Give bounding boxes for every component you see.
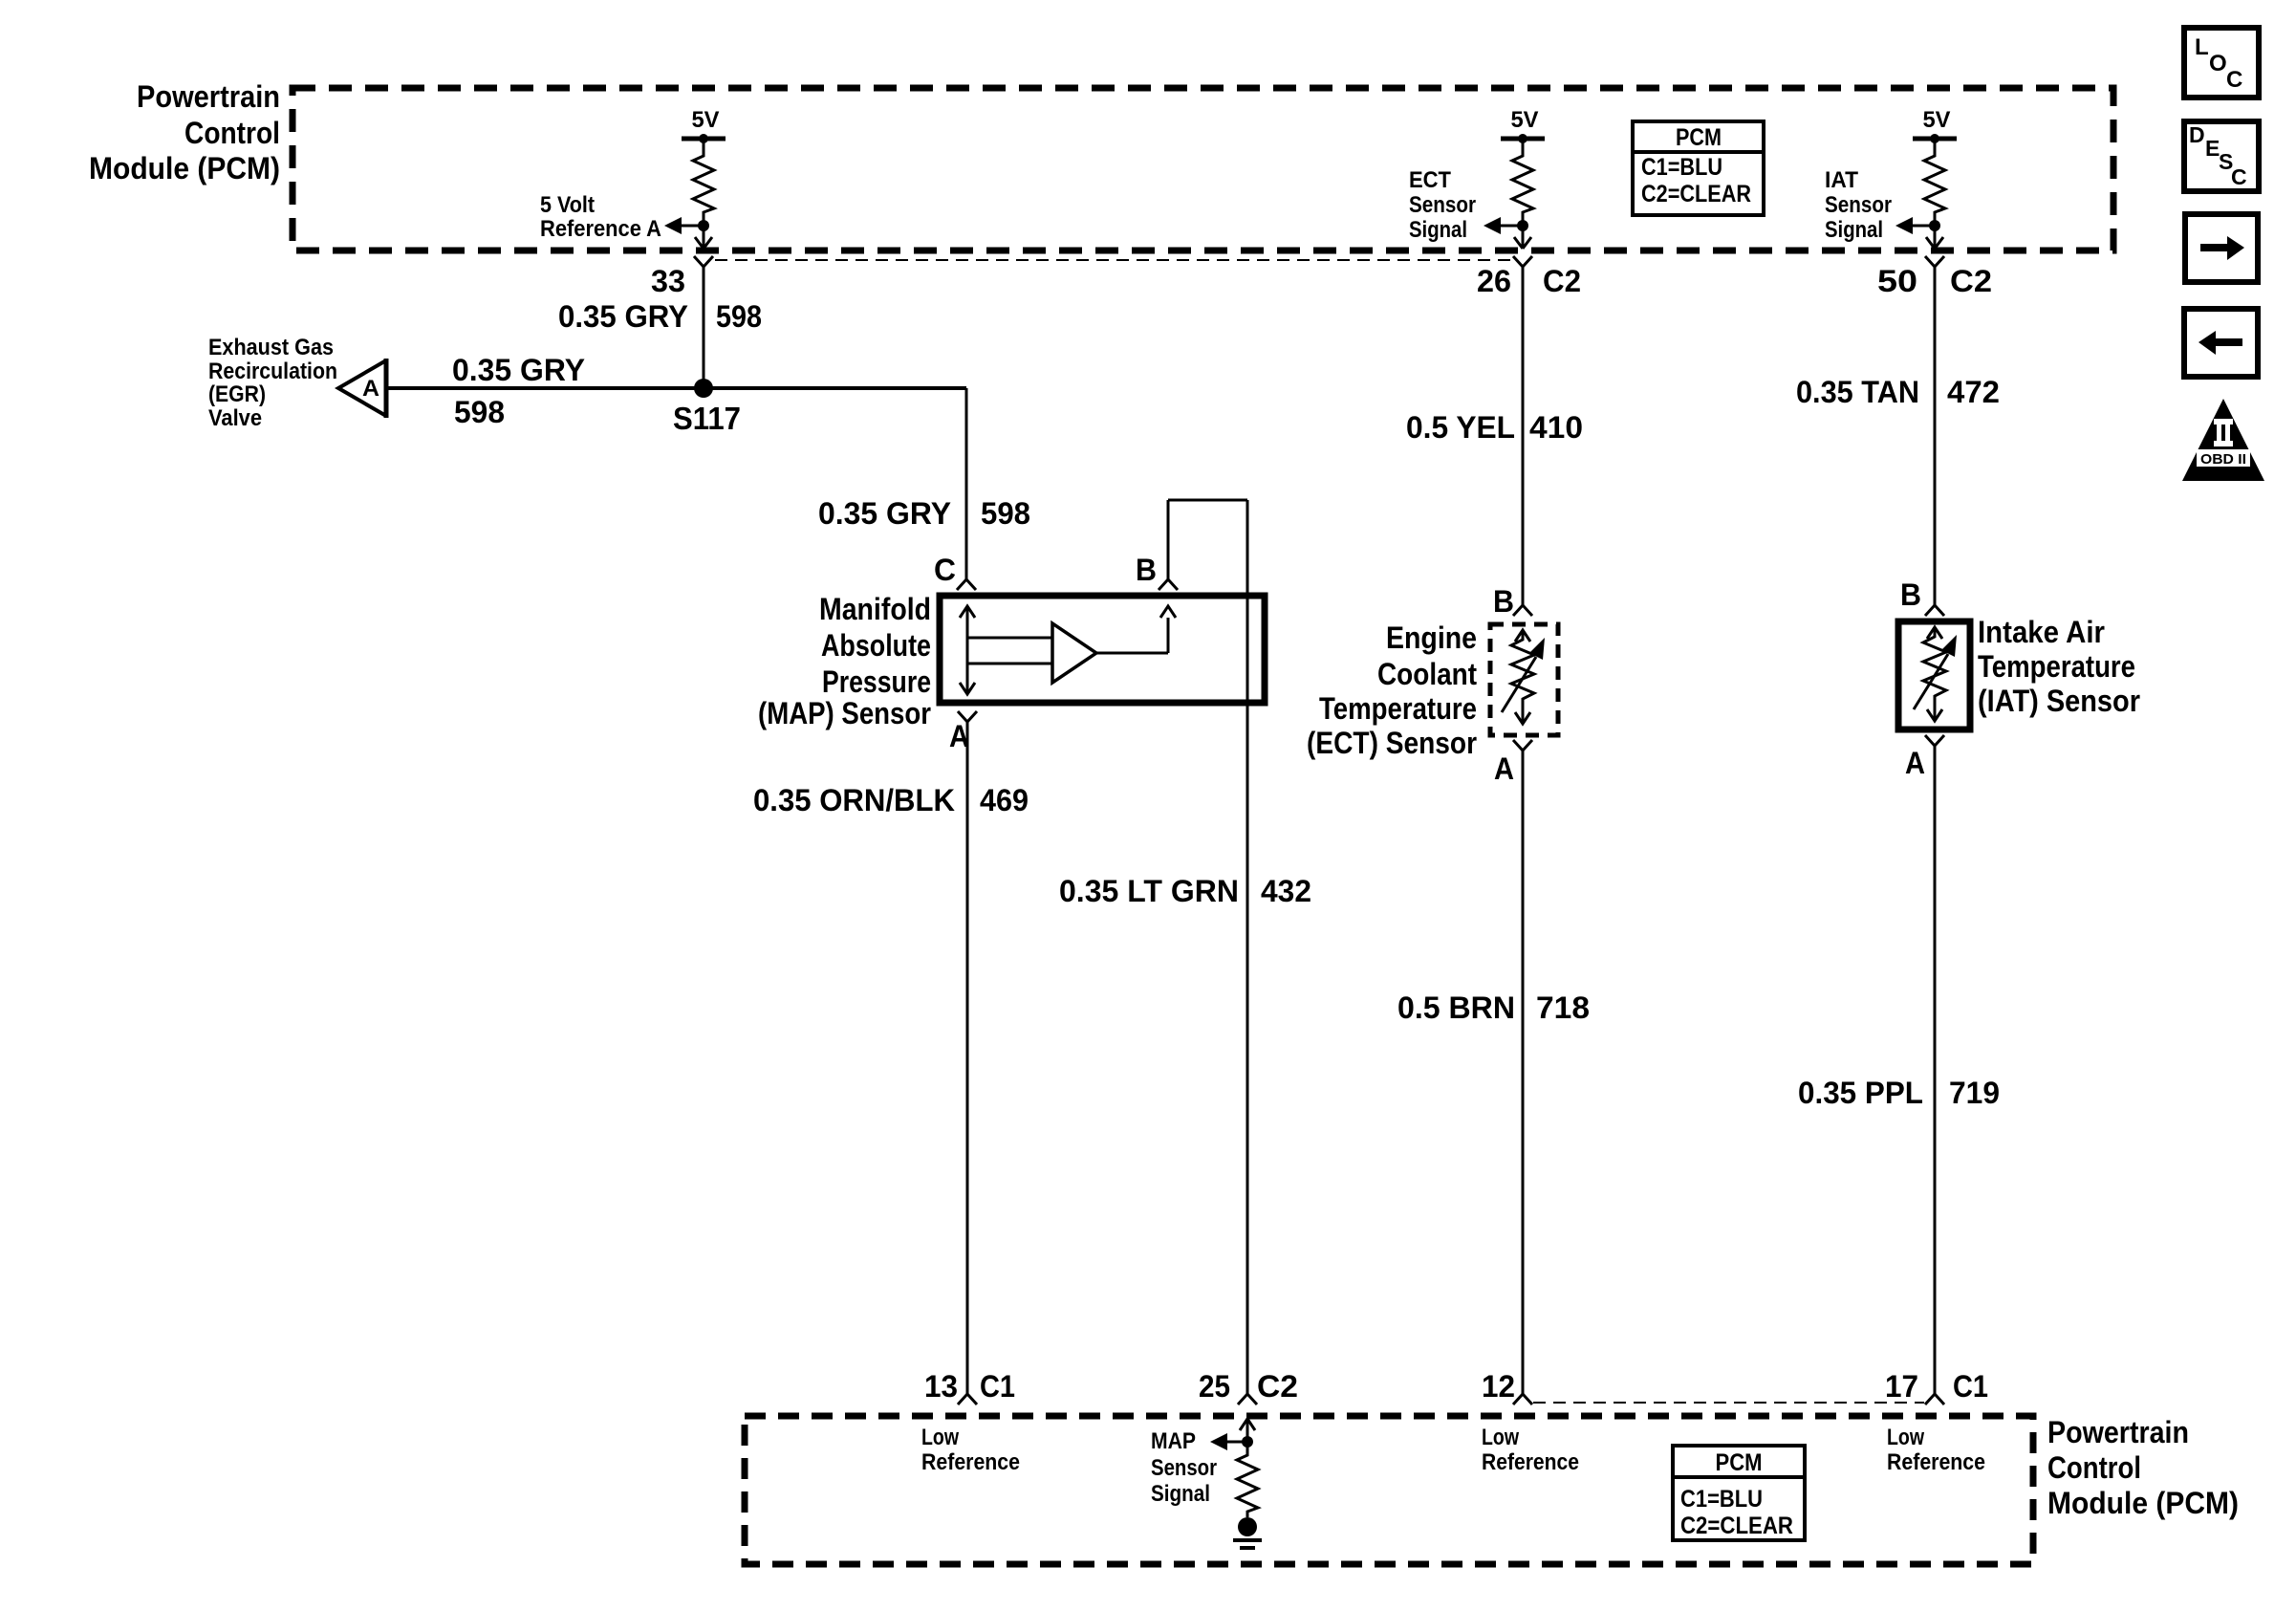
svg-text:PCM: PCM [1676, 124, 1722, 151]
MAP Sensor Signal label (bottom) [1151, 1428, 1217, 1507]
svg-text:0.35 GRY: 0.35 GRY [818, 496, 951, 531]
Low Reference label (pin 17) [1887, 1425, 1985, 1475]
svg-text:IAT: IAT [1825, 167, 1858, 193]
resistor R-5Vref [693, 139, 714, 226]
Low Reference label (pin 12) [1482, 1425, 1579, 1475]
wire 0.35 GRY 598 (pin 33 to S117) [703, 267, 705, 388]
svg-text:C: C [2226, 67, 2242, 93]
svg-text:0.35 TAN: 0.35 TAN [1796, 375, 1919, 409]
svg-text:A: A [1905, 746, 1925, 780]
svg-text:B: B [1900, 577, 1921, 612]
svg-text:0.5 YEL: 0.5 YEL [1406, 410, 1515, 445]
svg-text:0.5 BRN: 0.5 BRN [1397, 991, 1515, 1025]
svg-text:B: B [1493, 584, 1514, 619]
wire down arrow (R-5Vref) [703, 226, 705, 248]
node junction (R-5Vref) [698, 220, 709, 231]
wire down arrow (R-IAT) [1934, 226, 1937, 248]
IAT sensor label [1978, 615, 2140, 718]
connector pin 17 C1 [1885, 1369, 1988, 1404]
svg-text:Control: Control [2047, 1450, 2141, 1485]
svg-text:Pressure: Pressure [822, 664, 931, 699]
svg-text:0.35 GRY: 0.35 GRY [452, 353, 585, 387]
wire 0.35 TAN 472 (pin 50 to IAT B) [1934, 267, 1937, 605]
wire 0.35 PPL 719 (IAT A to pin 17) [1934, 746, 1937, 1394]
wire 0.5 BRN 718 (ECT A to pin 12) [1522, 751, 1525, 1394]
Low Reference label (pin 13) [921, 1425, 1020, 1475]
wire 0.35 ORN/BLK 469 (MAP A to pin 13) [966, 722, 969, 1394]
MAP pin B connector [1136, 553, 1178, 590]
PCM module label (bottom right) [2047, 1415, 2239, 1520]
svg-text:5V: 5V [1923, 107, 1951, 133]
svg-text:C1: C1 [1953, 1369, 1988, 1404]
svg-text:598: 598 [981, 496, 1030, 531]
svg-text:26: 26 [1477, 264, 1511, 298]
svg-text:0.35 PPL: 0.35 PPL [1798, 1076, 1923, 1110]
svg-text:Signal: Signal [1409, 217, 1467, 243]
svg-text:C: C [934, 553, 956, 587]
svg-text:ECT: ECT [1409, 167, 1451, 193]
svg-text:Exhaust Gas: Exhaust Gas [208, 335, 334, 360]
back arrow icon button [2184, 309, 2258, 377]
label 0.35 LT GRN 432 [1059, 874, 1311, 908]
PCM module dashed box (bottom) [745, 1416, 2033, 1564]
svg-text:C2: C2 [1543, 264, 1581, 298]
label 0.5 YEL 410 [1406, 410, 1583, 445]
svg-text:12: 12 [1482, 1369, 1515, 1404]
svg-text:A: A [362, 376, 379, 402]
EGR valve label [208, 335, 337, 431]
svg-text:432: 432 [1261, 874, 1311, 908]
svg-text:L: L [2195, 34, 2209, 60]
svg-text:Control: Control [184, 116, 280, 150]
svg-text:A: A [1494, 751, 1514, 786]
svg-text:Sensor: Sensor [1825, 192, 1892, 218]
svg-text:5V: 5V [1511, 107, 1539, 133]
svg-text:Manifold: Manifold [819, 592, 931, 626]
svg-text:MAP: MAP [1151, 1428, 1196, 1454]
svg-text:OBD II: OBD II [2200, 451, 2246, 468]
svg-text:Valve: Valve [208, 405, 262, 431]
svg-text:Engine: Engine [1386, 620, 1477, 655]
svg-text:C1=BLU: C1=BLU [1641, 154, 1722, 181]
svg-text:O: O [2209, 51, 2227, 76]
svg-text:5V: 5V [692, 107, 720, 133]
svg-text:Signal: Signal [1151, 1481, 1210, 1507]
svg-text:Coolant: Coolant [1377, 657, 1477, 691]
PCM module label (top left) [89, 79, 280, 185]
MAP sensor signal arrow and node [1210, 1419, 1255, 1450]
svg-text:Low: Low [1482, 1425, 1519, 1450]
connector splice dashed line (bottom) [1533, 1402, 1924, 1404]
svg-text:D: D [2189, 122, 2205, 147]
MAP sensor box [940, 596, 1265, 703]
ECT Sensor Signal label [1409, 167, 1476, 243]
svg-text:Reference: Reference [1887, 1449, 1985, 1475]
svg-text:(MAP) Sensor: (MAP) Sensor [758, 696, 931, 730]
svg-text:PCM: PCM [1716, 1449, 1763, 1476]
ECT pin B connector [1493, 584, 1532, 619]
svg-text:0.35 GRY: 0.35 GRY [558, 299, 688, 334]
svg-text:410: 410 [1529, 410, 1583, 445]
svg-text:C2=CLEAR: C2=CLEAR [1641, 181, 1751, 207]
ECT sensor dashed box [1490, 624, 1558, 735]
ECT pin A connector [1494, 740, 1532, 786]
svg-text:Reference A: Reference A [540, 216, 661, 242]
IAT Sensor Signal label [1825, 167, 1892, 243]
connector pin 33 [651, 256, 713, 298]
ECT sensor label [1307, 620, 1477, 760]
svg-text:Low: Low [1887, 1425, 1924, 1450]
svg-text:Temperature: Temperature [1319, 691, 1477, 726]
label 0.35 TAN 472 [1796, 375, 2000, 409]
svg-text:C1=BLU: C1=BLU [1680, 1486, 1763, 1513]
node junction (R-ECT) [1517, 220, 1528, 231]
svg-text:33: 33 [651, 264, 685, 298]
5V supply bar (R-IAT) [1913, 137, 1957, 142]
label 0.35 PPL 719 [1798, 1076, 2000, 1110]
OBD II icon [2182, 399, 2264, 481]
svg-text:0.35 LT GRN: 0.35 LT GRN [1059, 874, 1239, 908]
svg-text:25: 25 [1199, 1369, 1230, 1404]
wire 0.35 GRY 598 (S117 to MAP C) [965, 388, 968, 579]
svg-text:Temperature: Temperature [1978, 649, 2135, 684]
svg-text:C: C [2231, 164, 2247, 189]
svg-text:(IAT) Sensor: (IAT) Sensor [1978, 684, 2140, 718]
connector pin 26 C2 [1477, 256, 1581, 298]
5 Volt Reference A label [540, 192, 661, 242]
svg-text:C2=CLEAR: C2=CLEAR [1680, 1513, 1793, 1539]
svg-text:13: 13 [924, 1369, 958, 1404]
svg-text:719: 719 [1949, 1076, 2000, 1110]
resistor to ground (MAP signal) [1237, 1442, 1258, 1517]
IAT sensor box [1898, 621, 1970, 729]
connector splice dashed line (top) [715, 259, 1514, 261]
forward arrow icon button [2185, 214, 2258, 282]
label 0.5 BRN 718 [1397, 991, 1590, 1025]
svg-text:Reference: Reference [921, 1449, 1020, 1475]
MAP pin C connector [934, 553, 976, 590]
svg-text:472: 472 [1947, 375, 2000, 409]
connector pin 12 [1482, 1369, 1532, 1404]
MAP internal supply line with arrows [960, 606, 1052, 694]
svg-text:C2: C2 [1257, 1369, 1298, 1404]
svg-text:598: 598 [454, 395, 505, 429]
svg-text:598: 598 [716, 299, 762, 334]
svg-text:B: B [1136, 553, 1157, 587]
resistor R-ECT [1512, 139, 1533, 226]
resistor R-IAT [1924, 139, 1945, 226]
svg-text:5 Volt: 5 Volt [540, 192, 595, 218]
svg-text:718: 718 [1536, 991, 1590, 1025]
svg-text:Signal: Signal [1825, 217, 1883, 243]
EGR valve off-page connector A [338, 359, 386, 418]
svg-text:Low: Low [921, 1425, 959, 1450]
svg-text:Absolute: Absolute [821, 628, 931, 663]
svg-text:Module (PCM): Module (PCM) [2047, 1486, 2239, 1520]
LOC icon button [2184, 28, 2259, 98]
IAT thermistor RT2 [1927, 627, 1942, 639]
svg-text:Sensor: Sensor [1409, 192, 1476, 218]
MAP op-amp U1 [1052, 623, 1096, 683]
svg-text:Recirculation: Recirculation [208, 359, 337, 384]
ground node dot [1238, 1517, 1257, 1536]
signal arrow (R-5Vref) [682, 225, 704, 228]
PCM module dashed box (top) [292, 88, 2113, 250]
label 0.35 GRY 598 (top) [558, 299, 762, 334]
ECT thermistor RT1 [1515, 630, 1530, 642]
PCM connector legend box (bottom) [1673, 1446, 1805, 1540]
5V supply bar (R-ECT) [1501, 137, 1545, 142]
wire down arrow (R-ECT) [1522, 226, 1525, 248]
svg-text:Intake Air: Intake Air [1978, 615, 2105, 649]
signal arrow (R-ECT) [1501, 225, 1523, 228]
svg-text:17: 17 [1885, 1369, 1918, 1404]
signal arrow (R-IAT) [1913, 225, 1935, 228]
svg-text:0.35 ORN/BLK: 0.35 ORN/BLK [753, 783, 955, 817]
connector pin 50 C2 [1877, 256, 1992, 298]
svg-text:Module (PCM): Module (PCM) [89, 151, 280, 185]
svg-text:(ECT) Sensor: (ECT) Sensor [1307, 726, 1477, 760]
wire 0.5 YEL 410 (pin 26 to ECT B) [1522, 267, 1525, 605]
label 0.35 GRY 598 (MAP C wire) [818, 496, 1030, 531]
svg-text:50: 50 [1877, 264, 1917, 298]
splice S117 [673, 379, 741, 436]
wire 0.35 GRY 598 (S117 to EGR valve) [386, 386, 966, 390]
IAT pin A connector [1905, 735, 1944, 780]
connector pin 25 C2 [1199, 1369, 1298, 1404]
svg-text:S117: S117 [673, 401, 741, 436]
connector pin 13 C1 [924, 1369, 1015, 1404]
label 0.35 ORN/BLK 469 [753, 783, 1029, 817]
svg-text:(EGR): (EGR) [208, 381, 266, 407]
PCM connector legend box (top) [1633, 121, 1764, 215]
svg-text:C1: C1 [980, 1369, 1015, 1404]
svg-text:Powertrain: Powertrain [137, 79, 280, 114]
MAP sensor label [758, 592, 931, 730]
MAP pin A connector [949, 711, 977, 753]
wire 0.35 LT GRN 432 (MAP B to pin 25) [1168, 500, 1247, 1394]
ground symbol [1233, 1540, 1262, 1548]
svg-text:C2: C2 [1950, 264, 1992, 298]
svg-text:469: 469 [980, 783, 1029, 817]
node junction (R-IAT) [1929, 220, 1940, 231]
DESC icon button [2184, 121, 2259, 191]
5V supply bar (R-5Vref) [682, 137, 726, 142]
svg-text:Reference: Reference [1482, 1449, 1579, 1475]
IAT pin B connector [1900, 577, 1944, 616]
svg-text:Powertrain: Powertrain [2047, 1415, 2189, 1449]
MAP output line with arrow [1096, 606, 1176, 653]
svg-text:Sensor: Sensor [1151, 1455, 1217, 1481]
